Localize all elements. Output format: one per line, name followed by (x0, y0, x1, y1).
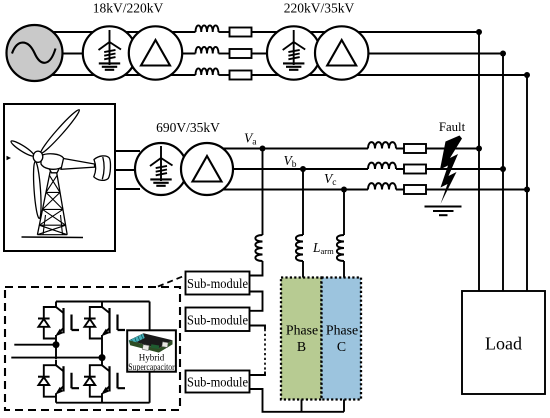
svg-text:Load: Load (485, 334, 522, 354)
svg-text:690V/35kV: 690V/35kV (156, 120, 220, 135)
svg-text:Fault: Fault (439, 120, 466, 134)
svg-text:C: C (337, 339, 346, 354)
svg-text:Supercapacitor: Supercapacitor (128, 362, 175, 372)
svg-text:Phase: Phase (286, 323, 318, 338)
svg-text:B: B (297, 339, 306, 354)
svg-text:Hybrid: Hybrid (139, 353, 165, 363)
svg-text:220kV/35kV: 220kV/35kV (284, 1, 355, 16)
svg-text:18kV/220kV: 18kV/220kV (93, 1, 164, 16)
svg-text:Phase: Phase (326, 323, 358, 338)
svg-text:Sub-module: Sub-module (187, 375, 248, 390)
svg-text:Sub-module: Sub-module (187, 276, 248, 291)
svg-text:Sub-module: Sub-module (187, 312, 248, 327)
